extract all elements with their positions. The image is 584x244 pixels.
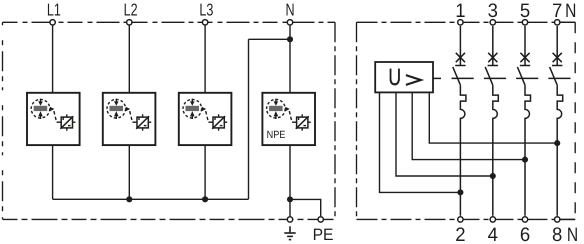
breaker pole 1: [452, 26, 474, 216]
wire L3 down: [204, 22, 206, 93]
svg-text:3: 3: [488, 0, 498, 22]
SPD module 3 (L3): [179, 93, 232, 145]
node pole3 junction: [522, 157, 528, 163]
svg-text:L1: L1: [47, 0, 61, 20]
terminal 6: [522, 217, 527, 222]
wire U> to pole 4: [429, 92, 557, 143]
svg-text:7: 7: [552, 0, 562, 22]
svg-text:6: 6: [520, 224, 530, 244]
terminal L3: [202, 20, 207, 25]
wire U> to pole 3: [412, 92, 525, 159]
terminal 7: [555, 20, 560, 25]
left unit enclosure border left (dash-dot): [2, 22, 4, 219]
wire U> to pole 2: [396, 92, 493, 176]
wire N down to module 4: [289, 22, 291, 93]
wire module4 bottom to earth: [289, 145, 291, 216]
wire N conductor right edge (dashed): [574, 22, 576, 219]
terminal N: [287, 20, 292, 25]
wire N through top right: [557, 21, 575, 23]
wire N through bottom right: [557, 218, 575, 220]
right unit enclosure border left (dash-dot): [356, 22, 358, 219]
wire riser to N: [248, 39, 250, 199]
wire L1 down: [52, 22, 54, 93]
svg-text:2: 2: [455, 224, 465, 244]
wire PE branch: [290, 199, 321, 216]
terminal earth: [287, 217, 292, 222]
breaker pole 4: [548, 26, 570, 216]
wire module3 bottom: [204, 145, 206, 199]
left unit enclosure border top (dash-dot): [3, 21, 336, 23]
terminal 2: [458, 217, 463, 222]
svg-text:8: 8: [552, 224, 562, 244]
terminal 1: [458, 20, 463, 25]
linkage dash from U> box: [434, 77, 442, 79]
left unit enclosure border bottom (dash-dot): [3, 218, 336, 220]
undervoltage release U> box: [375, 62, 433, 92]
svg-text:U: U: [388, 64, 401, 90]
wire U> to pole 1: [380, 92, 461, 192]
svg-text:L2: L2: [124, 0, 138, 20]
node bus-L2 junction: [126, 196, 132, 202]
node pole4 junction: [554, 140, 560, 146]
svg-text:1: 1: [455, 0, 465, 22]
terminal 4: [490, 217, 495, 222]
svg-text:4: 4: [488, 224, 498, 244]
wire L2 down: [128, 22, 130, 93]
wire common bus: [53, 198, 249, 200]
svg-text:N: N: [285, 0, 294, 20]
breaker pole 2: [484, 26, 506, 216]
svg-text:PE: PE: [313, 226, 334, 244]
terminal PE: [318, 217, 323, 222]
node PE junction: [287, 196, 293, 202]
svg-text:NPE: NPE: [267, 129, 286, 141]
svg-text:N: N: [567, 224, 578, 244]
svg-text:N: N: [565, 0, 576, 22]
left unit enclosure border right (dash-dot): [334, 22, 336, 219]
terminal 5: [522, 20, 527, 25]
svg-text:L3: L3: [199, 0, 213, 20]
terminal 3: [490, 20, 495, 25]
node N junction: [287, 36, 293, 42]
svg-text:5: 5: [520, 0, 530, 22]
ground symbol: [284, 226, 295, 239]
terminal 8: [555, 217, 560, 222]
node pole2 junction: [490, 173, 496, 179]
terminal L2: [127, 20, 132, 25]
SPD module 2 (L2): [103, 93, 156, 145]
terminal L1: [50, 20, 55, 25]
wire module1 bottom: [52, 145, 54, 199]
wire riser to N node: [249, 38, 291, 40]
right unit enclosure border bottom (dash-dot): [357, 218, 576, 220]
breaker pole 3: [516, 26, 538, 216]
SPD module 4 (N-PE): [262, 93, 315, 145]
SPD module 1 (L1): [27, 93, 80, 145]
label > of U>: [406, 75, 421, 85]
node pole1 junction: [457, 189, 463, 195]
node bus-L3 junction: [202, 196, 208, 202]
right unit enclosure border top (dash-dot): [357, 21, 576, 23]
wire module2 bottom: [128, 145, 130, 199]
